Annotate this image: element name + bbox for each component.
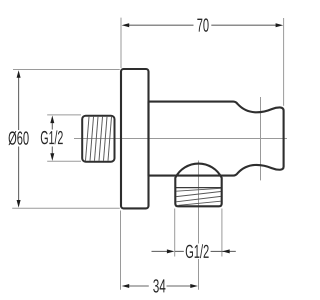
nipple thread line 2 (90, 117, 94, 161)
nipple thread line 6 (108, 117, 112, 161)
arrow 70 left (122, 23, 130, 27)
outlet thread band top edge (175, 187, 221, 189)
inlet nipple outline (82, 116, 114, 162)
extension line: diameter 60 bottom (12, 207, 120, 209)
arrow 34 left (122, 284, 130, 288)
extension line: bottom G1/2 left (174, 209, 176, 257)
body outline: arm and holder knob (149, 102, 284, 176)
arrow 70 right (276, 23, 284, 27)
wall flange fill (121, 69, 149, 208)
arrow bottom G1/2 left (points right at extension) (167, 249, 175, 253)
outlet thread line 1 (176, 188, 221, 191)
arrow d60 bottom (17, 200, 21, 208)
extension line: 70 dim left (wall face) (120, 18, 122, 68)
dimension text diameter60 (8, 131, 28, 145)
nipple thread line 4 (99, 117, 103, 161)
outlet thread line 2 (176, 192, 221, 197)
outlet thread line 4 (179, 201, 221, 205)
body fill: arm and holder (149, 102, 284, 176)
extension line: bottom G1/2 right (221, 209, 223, 257)
arrow d60 top (17, 70, 21, 78)
arrow 34 right (190, 284, 198, 288)
outlet fill: dome and threaded stub (175, 164, 221, 207)
dimension text 34 (153, 279, 165, 292)
centerline: holder knob axis (260, 97, 262, 180)
extension line: diameter 60 top (13, 69, 120, 71)
centerline: arm axis (74, 138, 287, 140)
inlet nipple G1/2 fill (82, 116, 114, 162)
outlet outline: dome and threaded stub (175, 164, 221, 207)
dimension line left G1/2 (51, 122, 53, 130)
dimension line 34 (129, 285, 149, 287)
dimension line bottom G1/2 (152, 250, 168, 252)
dimension text 70 (197, 18, 208, 31)
nipple thread line 5 (104, 117, 108, 161)
extension line: left G1/2 top (47, 114, 81, 116)
wall flange outline (121, 69, 149, 208)
centerline: outlet axis upper (198, 161, 200, 244)
dimension text bottom G1/2 (186, 244, 209, 258)
extension line: 70 dim right (holder face) (283, 18, 285, 106)
centerline: outlet axis lower (198, 259, 200, 290)
arrow bottom G1/2 right (points left at extension) (222, 249, 230, 253)
arrow left G1/2 top (50, 116, 54, 124)
arrow left G1/2 bottom (50, 153, 54, 161)
dimension line 70 (129, 24, 194, 26)
dimension text left G1/2 (41, 130, 63, 144)
nipple thread line 3 (95, 117, 99, 161)
extension line: left G1/2 bottom (47, 160, 81, 162)
outlet thread line 3 (176, 196, 221, 201)
nipple thread line 1 (86, 117, 90, 161)
extension line: 34 dim left (wall face) (120, 211, 122, 290)
dimension line diameter 60 (18, 76, 20, 130)
